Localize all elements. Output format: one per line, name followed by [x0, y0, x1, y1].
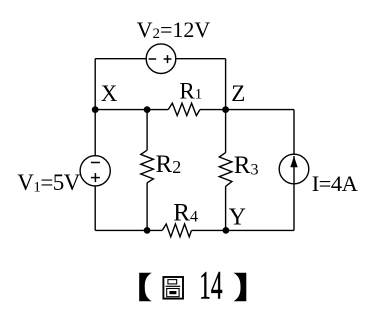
svg-text:14: 14 — [199, 264, 222, 308]
wire R3 branch lower (to Y) — [225, 186, 227, 230]
svg-text:X: X — [101, 81, 118, 106]
resistor R1 — [168, 103, 200, 115]
caption left lenticular bracket — [139, 273, 152, 302]
caption character tu (figure) — [163, 277, 183, 299]
wire left vertical lower — [94, 186, 96, 231]
V2 minus sign — [149, 58, 157, 60]
svg-text:R1: R1 — [179, 78, 202, 103]
wire mid horizontal X to R1 — [95, 109, 168, 111]
node at R2 bottom junction dot — [144, 227, 151, 234]
wire R1 to node Z — [200, 109, 226, 111]
wire top-right horizontal — [176, 58, 226, 60]
current source U1 circle — [279, 154, 309, 184]
resistor R2 — [141, 150, 154, 183]
V1 minus sign — [91, 162, 100, 164]
svg-text:R4: R4 — [173, 200, 198, 227]
V2 plus sign — [164, 58, 172, 60]
node at R2 top junction dot — [144, 106, 151, 113]
wire R2 branch upper — [146, 110, 148, 151]
wire R2 branch lower — [146, 183, 148, 231]
svg-text:R3: R3 — [234, 152, 259, 179]
resistor R3 — [219, 153, 232, 187]
node Z junction dot — [222, 106, 229, 113]
svg-text:Z: Z — [231, 81, 245, 106]
node Y junction dot — [223, 227, 230, 234]
wire top-left horizontal — [95, 58, 146, 60]
wire bottom left segment — [95, 229, 162, 231]
node X junction dot — [92, 106, 99, 113]
wire R3 branch upper — [225, 110, 227, 153]
svg-text:V2=12V: V2=12V — [137, 17, 211, 42]
voltage source V2 circle — [146, 44, 176, 74]
wire left vertical upper (through node X) — [94, 59, 96, 156]
wire right vertical (through current source) — [293, 110, 295, 231]
V1 plus sign — [91, 177, 100, 179]
resistor R4 — [162, 224, 191, 237]
svg-text:I=4A: I=4A — [312, 171, 359, 196]
svg-text:R2: R2 — [156, 151, 182, 178]
current source arrow shaft — [293, 156, 295, 183]
caption right lenticular bracket — [234, 273, 247, 302]
wire right-top vertical (to node Z) — [225, 59, 227, 110]
voltage source V1 circle — [80, 156, 110, 186]
svg-text:Y: Y — [229, 205, 246, 231]
svg-text:V1=5V: V1=5V — [17, 170, 81, 196]
current source arrow head — [290, 156, 297, 167]
wire Z to right branch — [226, 109, 294, 111]
wire bottom right segment (through Y) — [192, 229, 295, 231]
